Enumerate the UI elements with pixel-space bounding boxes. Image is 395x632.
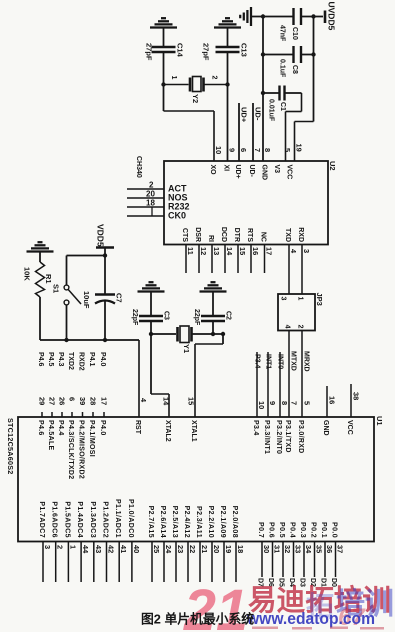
resistor R1 10K bbox=[36, 262, 45, 297]
svg-text:26: 26 bbox=[58, 397, 67, 405]
svg-text:8: 8 bbox=[280, 401, 289, 405]
U2 left pin ACT bbox=[127, 188, 164, 190]
svg-text:9: 9 bbox=[268, 401, 277, 405]
svg-text:INT0: INT0 bbox=[277, 354, 284, 369]
svg-text:P4.6: P4.6 bbox=[37, 352, 44, 367]
svg-text:P0.4: P0.4 bbox=[289, 522, 296, 538]
wire RXD bbox=[301, 245, 303, 295]
svg-text:31: 31 bbox=[273, 545, 282, 553]
op-amp U1 STC12C5A60S2 box bbox=[18, 417, 374, 542]
svg-text:DSR: DSR bbox=[194, 227, 201, 242]
svg-text:C3: C3 bbox=[163, 311, 170, 320]
svg-text:MTXD: MTXD bbox=[290, 351, 297, 371]
wire bbox=[163, 28, 165, 48]
U1 pin 19 P2.1/A09 bbox=[223, 542, 225, 583]
wire bbox=[66, 305, 68, 340]
svg-text:P2.6/A14: P2.6/A14 bbox=[159, 506, 166, 538]
U1 pin 6 P4.3/SCLK/TXD2 bbox=[71, 412, 73, 417]
svg-text:3: 3 bbox=[280, 297, 287, 301]
wire XTAL1 route bbox=[222, 334, 224, 344]
svg-text:CK0: CK0 bbox=[168, 211, 186, 221]
svg-text:7: 7 bbox=[290, 401, 299, 405]
wire bbox=[301, 54, 314, 56]
wire bbox=[163, 52, 165, 85]
svg-text:图2 单片机最小系统: 图2 单片机最小系统 bbox=[141, 612, 254, 627]
svg-text:P0.2: P0.2 bbox=[310, 522, 317, 538]
svg-text:XI: XI bbox=[223, 165, 230, 172]
svg-text:R1: R1 bbox=[44, 274, 53, 284]
svg-text:DTR: DTR bbox=[233, 228, 240, 242]
svg-text:UD-: UD- bbox=[254, 107, 263, 121]
svg-text:P0.7: P0.7 bbox=[257, 522, 264, 538]
svg-text:P4.3/SCLK/TXD2: P4.3/SCLK/TXD2 bbox=[67, 420, 74, 479]
ground bbox=[150, 18, 177, 27]
U1 pin 31 P0.6 bbox=[272, 542, 274, 578]
svg-text:C7: C7 bbox=[115, 293, 124, 303]
crystal Y1 bbox=[178, 326, 192, 343]
svg-text:P2.3/A11: P2.3/A11 bbox=[195, 506, 202, 538]
wire bbox=[39, 252, 41, 263]
U1 pin 30 P0.7 bbox=[261, 542, 263, 578]
svg-text:C2: C2 bbox=[225, 311, 232, 320]
U2 left pin R232 bbox=[127, 206, 164, 208]
svg-text:35: 35 bbox=[315, 545, 324, 553]
svg-text:RST: RST bbox=[134, 420, 141, 435]
svg-text:VCC: VCC bbox=[286, 165, 293, 180]
svg-text:20: 20 bbox=[212, 545, 221, 553]
svg-text:28: 28 bbox=[89, 397, 98, 405]
U1 pin 1 P1.5ADC5 bbox=[67, 542, 69, 583]
svg-text:12: 12 bbox=[199, 247, 208, 255]
U2 left pin CK0 bbox=[127, 215, 164, 217]
svg-text:32: 32 bbox=[283, 545, 292, 553]
U1 pin 36 P0.1 bbox=[324, 542, 326, 578]
svg-text:29: 29 bbox=[38, 397, 47, 405]
svg-text:34: 34 bbox=[304, 545, 313, 554]
svg-text:GND: GND bbox=[261, 165, 268, 181]
svg-text:RI: RI bbox=[207, 235, 214, 242]
capacitor C2 22pF bbox=[201, 316, 225, 321]
capacitor C10 47nF bbox=[294, 8, 302, 25]
wire V3 route bbox=[285, 92, 302, 94]
svg-text:8: 8 bbox=[263, 148, 272, 152]
U2 pin 14 DCD bbox=[224, 245, 226, 274]
svg-text:P4.5: P4.5 bbox=[47, 352, 54, 367]
svg-text:P1.5ADC5: P1.5ADC5 bbox=[63, 501, 70, 538]
wire bbox=[263, 54, 294, 56]
svg-text:14: 14 bbox=[225, 247, 234, 256]
U2 pin 11 CTS bbox=[185, 245, 187, 274]
svg-text:P3.3/INT1: P3.3/INT1 bbox=[263, 420, 270, 454]
svg-text:20: 20 bbox=[146, 190, 155, 199]
svg-text:30: 30 bbox=[262, 545, 271, 553]
svg-text:44: 44 bbox=[81, 545, 90, 554]
node E bbox=[103, 253, 107, 257]
wire bbox=[263, 92, 280, 94]
wire TXD bbox=[288, 245, 290, 295]
svg-text:0.1uF: 0.1uF bbox=[279, 59, 286, 78]
svg-text:www.edatop.com: www.edatop.com bbox=[246, 609, 375, 628]
svg-text:21: 21 bbox=[200, 545, 209, 553]
capacitor C13 27pF bbox=[216, 47, 240, 52]
U1 pin 21 P2.3/A11 bbox=[199, 542, 201, 583]
svg-text:P3.1/TXD: P3.1/TXD bbox=[284, 420, 291, 453]
ground bbox=[138, 282, 165, 291]
svg-text:P1.6ADC6: P1.6ADC6 bbox=[51, 501, 58, 538]
wire bbox=[104, 256, 106, 295]
svg-text:7: 7 bbox=[253, 148, 262, 152]
node C bbox=[261, 14, 265, 18]
U1 pin 10 P3.4 bbox=[256, 352, 258, 417]
svg-text:Y1: Y1 bbox=[182, 344, 191, 353]
U1 pin 42 P1.2ADC2 bbox=[106, 542, 108, 583]
svg-text:24: 24 bbox=[164, 545, 173, 554]
U1 pin 22 P2.4/A12 bbox=[187, 542, 189, 583]
svg-text:2: 2 bbox=[211, 76, 218, 80]
svg-text:P4.1: P4.1 bbox=[88, 352, 95, 367]
svg-text:P2.7/A15: P2.7/A15 bbox=[147, 506, 154, 538]
U1 pin 25 P2.7/A15 bbox=[151, 542, 153, 583]
svg-text:P1.2ADC2: P1.2ADC2 bbox=[102, 501, 109, 538]
svg-text:UD+: UD+ bbox=[240, 107, 249, 123]
svg-text:10K: 10K bbox=[23, 267, 32, 281]
wire RST net bbox=[40, 339, 139, 341]
U1 pin 16 GND bbox=[326, 386, 328, 417]
svg-text:P2.0/A08: P2.0/A08 bbox=[231, 506, 238, 538]
svg-text:16: 16 bbox=[251, 247, 260, 255]
svg-text:10: 10 bbox=[214, 146, 223, 154]
crystal Y2 bbox=[164, 77, 228, 92]
svg-text:C14: C14 bbox=[176, 43, 185, 58]
U1 pin 8 P3.2/INT0 bbox=[279, 352, 281, 417]
svg-text:P3.4: P3.4 bbox=[252, 420, 259, 436]
svg-text:MRXD: MRXD bbox=[303, 351, 310, 372]
U1 pin 27 P4.5ALE bbox=[51, 412, 53, 417]
wire MRXD bbox=[301, 331, 303, 418]
svg-text:P4.6: P4.6 bbox=[37, 420, 44, 436]
wire bbox=[212, 321, 214, 334]
svg-text:P2.5/A13: P2.5/A13 bbox=[171, 506, 178, 538]
svg-text:4: 4 bbox=[284, 325, 291, 329]
wire bbox=[263, 16, 294, 18]
U2 pin 12 DSR bbox=[198, 245, 200, 274]
node D bbox=[311, 14, 315, 18]
svg-text:P3.0/RXD: P3.0/RXD bbox=[297, 420, 304, 454]
watermark marks bbox=[252, 627, 278, 630]
svg-text:U2: U2 bbox=[328, 161, 337, 171]
svg-text:22: 22 bbox=[188, 545, 197, 553]
svg-text:C8: C8 bbox=[291, 65, 298, 74]
ground bbox=[240, 7, 251, 26]
svg-text:P4.1/MOSI: P4.1/MOSI bbox=[88, 420, 95, 457]
svg-text:UVDD5: UVDD5 bbox=[327, 2, 337, 31]
svg-text:40: 40 bbox=[132, 545, 141, 553]
svg-text:Y2: Y2 bbox=[191, 94, 200, 103]
svg-text:P1.0/ADC0: P1.0/ADC0 bbox=[127, 499, 134, 538]
svg-text:DCD: DCD bbox=[220, 227, 227, 242]
svg-text:22pF: 22pF bbox=[131, 309, 138, 326]
wire bbox=[104, 248, 106, 256]
ground bbox=[200, 282, 227, 291]
svg-text:P0.5: P0.5 bbox=[278, 522, 285, 538]
svg-text:18: 18 bbox=[146, 199, 155, 208]
svg-text:P0.6: P0.6 bbox=[268, 522, 275, 538]
svg-text:25: 25 bbox=[152, 545, 161, 553]
svg-text:P2.1/A09: P2.1/A09 bbox=[219, 506, 226, 538]
U1 pin 17 P4.0 bbox=[103, 412, 105, 417]
svg-text:C13: C13 bbox=[240, 43, 249, 57]
svg-text:1: 1 bbox=[68, 545, 77, 549]
wire bbox=[227, 28, 229, 48]
wire bbox=[212, 292, 214, 317]
svg-text:P1.3ADC3: P1.3ADC3 bbox=[89, 501, 96, 538]
node A bbox=[161, 82, 165, 86]
svg-text:P0.1: P0.1 bbox=[320, 522, 327, 538]
svg-text:17: 17 bbox=[265, 247, 274, 255]
U1 pin 40 P1.0/ADC0 bbox=[131, 542, 133, 583]
U1 pin 43 P1.3ADC3 bbox=[93, 542, 95, 583]
svg-text:P1.7ADC7: P1.7ADC7 bbox=[38, 501, 45, 538]
svg-text:2: 2 bbox=[56, 545, 65, 549]
svg-text:14: 14 bbox=[162, 397, 171, 406]
svg-text:RTS: RTS bbox=[246, 228, 253, 242]
capacitor C3 22pF bbox=[139, 316, 163, 321]
U1 pin 20 P2.2/A10 bbox=[211, 542, 213, 583]
ground bbox=[214, 18, 241, 27]
svg-text:2: 2 bbox=[149, 181, 154, 190]
U1 pin 3 P1.7ADC7 bbox=[42, 542, 44, 583]
wire bbox=[227, 52, 229, 85]
svg-text:P2.4/A12: P2.4/A12 bbox=[183, 506, 190, 538]
capacitor C8 0.1uF bbox=[294, 46, 302, 63]
wire bbox=[104, 302, 106, 341]
svg-text:27pF: 27pF bbox=[202, 43, 211, 61]
svg-text:10uF: 10uF bbox=[82, 291, 91, 309]
svg-text:33: 33 bbox=[294, 545, 303, 553]
svg-text:V3: V3 bbox=[273, 165, 280, 174]
svg-text:GND: GND bbox=[322, 420, 329, 436]
svg-text:10: 10 bbox=[257, 401, 266, 409]
op-amp U2 CH340 box bbox=[164, 161, 328, 245]
svg-text:XTAL1: XTAL1 bbox=[190, 420, 197, 442]
svg-text:5: 5 bbox=[283, 148, 292, 152]
svg-text:0.01uF: 0.01uF bbox=[268, 99, 275, 122]
wire bbox=[39, 297, 41, 340]
node F bbox=[149, 332, 153, 336]
svg-text:P4.0: P4.0 bbox=[99, 420, 106, 436]
svg-text:U1: U1 bbox=[375, 416, 384, 426]
svg-text:JP3: JP3 bbox=[315, 293, 324, 306]
power UVDD5 bbox=[324, 11, 327, 24]
svg-text:3: 3 bbox=[302, 249, 311, 253]
U1 pin 35 P0.2 bbox=[314, 542, 316, 578]
capacitor C1 0.01uF bbox=[280, 86, 285, 101]
U1 pin 37 P0.0 bbox=[335, 542, 337, 578]
svg-text:38: 38 bbox=[352, 392, 361, 400]
svg-text:TXD: TXD bbox=[284, 228, 291, 242]
U2 pin 13 RI bbox=[211, 245, 213, 274]
svg-text:P4.4: P4.4 bbox=[57, 420, 64, 436]
svg-text:19: 19 bbox=[295, 144, 304, 152]
wire bbox=[251, 16, 263, 18]
svg-text:41: 41 bbox=[119, 545, 128, 553]
svg-text:P3.4: P3.4 bbox=[254, 354, 261, 369]
svg-text:UD+: UD+ bbox=[234, 165, 241, 179]
svg-text:NC: NC bbox=[260, 232, 267, 242]
wire XO route bbox=[163, 85, 165, 112]
U2 pin 16 RTS bbox=[250, 245, 252, 274]
svg-text:P0.0: P0.0 bbox=[331, 522, 338, 538]
svg-text:42: 42 bbox=[107, 545, 116, 553]
U1 pin 29 P4.6 bbox=[41, 412, 43, 417]
wire UD- bbox=[252, 103, 254, 161]
svg-text:VDD5: VDD5 bbox=[96, 224, 106, 247]
wire bbox=[67, 255, 106, 257]
svg-text:43: 43 bbox=[94, 545, 103, 553]
svg-text:15: 15 bbox=[187, 397, 196, 405]
U1 pin 41 P1.1/ADC1 bbox=[118, 542, 120, 583]
svg-text:STC12C5A60S2: STC12C5A60S2 bbox=[6, 418, 15, 475]
svg-text:TXD2: TXD2 bbox=[67, 352, 74, 370]
svg-text:3: 3 bbox=[43, 545, 52, 549]
svg-text:S1: S1 bbox=[52, 284, 61, 293]
svg-text:27pF: 27pF bbox=[145, 43, 154, 61]
svg-text:P1.1/ADC1: P1.1/ADC1 bbox=[114, 499, 121, 538]
wire bbox=[150, 321, 152, 334]
svg-text:XO: XO bbox=[209, 165, 216, 176]
svg-text:P4.3: P4.3 bbox=[57, 352, 64, 367]
svg-text:C1: C1 bbox=[279, 102, 286, 111]
svg-text:1: 1 bbox=[170, 76, 177, 80]
connector JP3 bbox=[278, 294, 315, 331]
svg-text:37: 37 bbox=[336, 545, 345, 553]
svg-text:6: 6 bbox=[239, 148, 248, 152]
U1 pin 44 P1.4ADC4 bbox=[80, 542, 82, 583]
switch S1 bbox=[64, 285, 69, 290]
ground bbox=[27, 242, 54, 251]
U1 pin 2 P1.6ADC6 bbox=[55, 542, 57, 583]
wire bbox=[192, 333, 224, 335]
U1 pin 33 P0.4 bbox=[293, 542, 295, 578]
svg-text:39: 39 bbox=[78, 397, 87, 405]
wire XI bbox=[227, 85, 229, 162]
svg-text:P3.2/INT0: P3.2/INT0 bbox=[275, 420, 282, 454]
svg-text:1: 1 bbox=[297, 297, 304, 301]
svg-text:13: 13 bbox=[212, 247, 221, 255]
U1 pin 24 P2.6/A14 bbox=[163, 542, 165, 583]
svg-text:22pF: 22pF bbox=[193, 309, 200, 326]
svg-text:16: 16 bbox=[328, 396, 337, 404]
svg-text:CTS: CTS bbox=[181, 228, 188, 242]
svg-text:47nF: 47nF bbox=[279, 25, 286, 42]
svg-text:RXD: RXD bbox=[297, 227, 304, 242]
wire bbox=[314, 16, 324, 18]
U2 pin 17 NC bbox=[264, 245, 266, 274]
svg-text:P2.2/A10: P2.2/A10 bbox=[207, 506, 214, 538]
svg-text:RXD2: RXD2 bbox=[78, 352, 85, 371]
svg-text:P0.3: P0.3 bbox=[299, 522, 306, 538]
U1 pin 9 P3.3/INT1 bbox=[267, 352, 269, 417]
svg-text:17: 17 bbox=[100, 397, 109, 405]
wire MTXD bbox=[288, 331, 290, 418]
svg-text:VCC: VCC bbox=[346, 420, 353, 435]
svg-text:XTAL2: XTAL2 bbox=[164, 420, 171, 442]
wire VCC rail bbox=[313, 17, 315, 122]
wire bbox=[150, 292, 152, 317]
svg-text:9: 9 bbox=[228, 148, 237, 152]
U1 pin 32 P0.5 bbox=[282, 542, 284, 578]
svg-text:23: 23 bbox=[176, 545, 185, 553]
wire bbox=[151, 333, 176, 335]
node B bbox=[225, 82, 229, 86]
node G bbox=[221, 332, 225, 336]
wire GND rail bbox=[262, 17, 264, 162]
wire bbox=[301, 16, 314, 18]
svg-text:36: 36 bbox=[325, 545, 334, 553]
svg-text:15: 15 bbox=[238, 247, 247, 255]
svg-text:UD-: UD- bbox=[248, 165, 255, 178]
U1 pin 39 P4.2/MISO/RXD2 bbox=[82, 412, 84, 417]
U2 pin 15 DTR bbox=[237, 245, 239, 274]
wire XTAL2 route bbox=[150, 334, 152, 394]
svg-text:P1.4ADC4: P1.4ADC4 bbox=[76, 501, 83, 538]
svg-text:C10: C10 bbox=[291, 27, 298, 40]
U1 pin 28 P4.1/MOSI bbox=[92, 412, 94, 417]
svg-text:18: 18 bbox=[236, 545, 245, 553]
U1 pin 18 P2.0/A08 bbox=[235, 542, 237, 583]
svg-text:P4.5ALE: P4.5ALE bbox=[47, 420, 54, 451]
svg-text:CH340: CH340 bbox=[135, 156, 142, 178]
wire bbox=[66, 256, 68, 286]
U2 left pin NOS bbox=[127, 197, 164, 199]
svg-text:2: 2 bbox=[297, 325, 304, 329]
svg-text:INT1: INT1 bbox=[265, 354, 272, 369]
svg-text:19: 19 bbox=[224, 545, 233, 553]
svg-text:P4.0: P4.0 bbox=[99, 352, 106, 367]
U1 pin 23 P2.5/A13 bbox=[175, 542, 177, 583]
svg-text:27: 27 bbox=[48, 397, 57, 405]
U1 pin 34 P0.3 bbox=[303, 542, 305, 578]
svg-text:5: 5 bbox=[303, 401, 312, 405]
svg-text:P4.2/MISO/RXD2: P4.2/MISO/RXD2 bbox=[78, 420, 85, 479]
svg-text:11: 11 bbox=[186, 247, 195, 255]
svg-text:6: 6 bbox=[68, 397, 77, 401]
capacitor C14 27pF bbox=[152, 47, 176, 52]
U1 pin 38 VCC bbox=[350, 384, 352, 417]
U1 pin 26 P4.4 bbox=[61, 412, 63, 417]
wire UD+ bbox=[238, 103, 240, 161]
wire bbox=[151, 207, 153, 216]
